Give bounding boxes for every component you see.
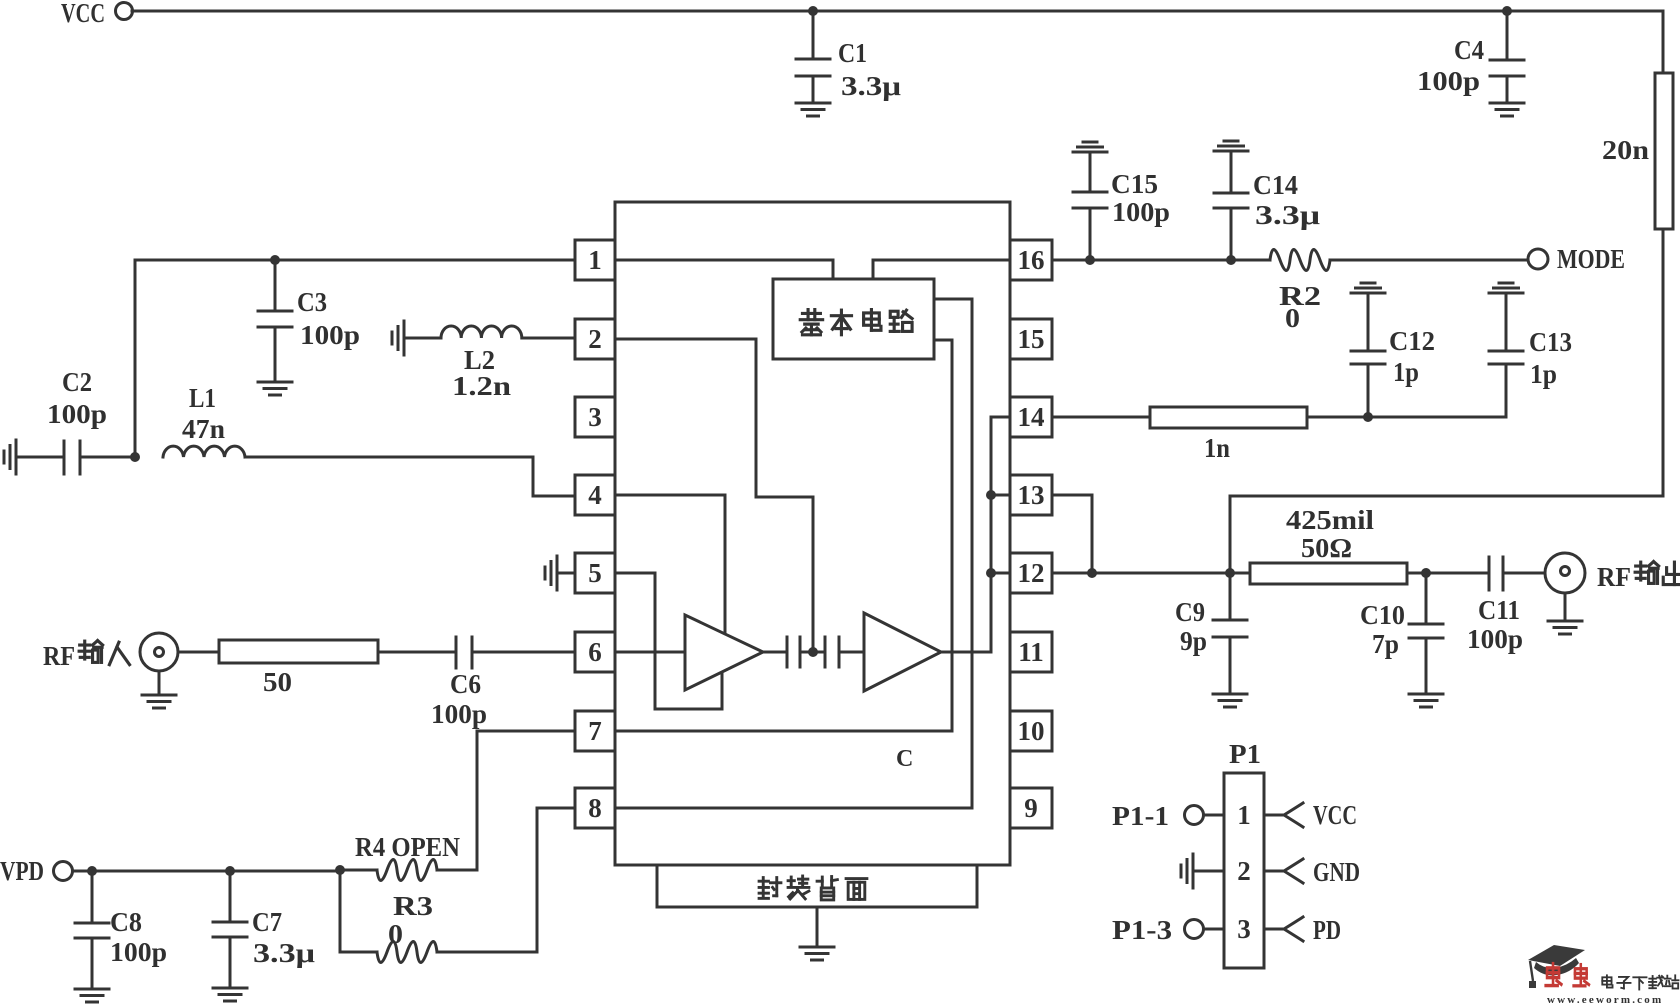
svg-text:www.eeworm.com: www.eeworm.com (1547, 994, 1663, 1005)
svg-text:R3: R3 (393, 891, 433, 921)
svg-text:C1: C1 (838, 38, 867, 68)
svg-text:3.3μ: 3.3μ (253, 938, 315, 968)
terminal MODE (1528, 244, 1625, 274)
svg-text:12: 12 (1018, 558, 1045, 588)
svg-text:4: 4 (588, 480, 602, 510)
capacitor C2 100p (16, 367, 135, 474)
wire pin7 to R4 (437, 731, 575, 870)
node pin12 link (986, 568, 996, 578)
wire A2 output riser (941, 417, 991, 652)
inner block package-back (657, 865, 977, 907)
svg-text:1n: 1n (1204, 433, 1230, 463)
svg-text:VCC: VCC (61, 0, 105, 28)
svg-text:100p: 100p (110, 937, 167, 967)
wire pin16 to MODE (1052, 259, 1270, 262)
node C14 junction (1226, 255, 1236, 265)
svg-text:3: 3 (588, 402, 602, 432)
pin 1 (575, 240, 615, 280)
node C12 junction (1363, 412, 1373, 422)
svg-text:GND: GND (1313, 857, 1360, 887)
terminal RF input (43, 633, 178, 671)
node C8 junction (87, 866, 97, 876)
pin 11 (1010, 632, 1052, 672)
capacitor interstage Ca (787, 637, 825, 667)
svg-text:C13: C13 (1529, 327, 1572, 357)
capacitor C3 100p (258, 260, 360, 382)
node pin13 link (986, 490, 996, 500)
wire VPD rail (73, 870, 340, 873)
capacitor C1 3.3u (796, 11, 901, 103)
pin 2 (575, 319, 615, 359)
pin 5 (575, 553, 615, 593)
svg-text:P1-3: P1-3 (1112, 915, 1172, 945)
svg-text:VPD: VPD (0, 856, 44, 886)
wire basic-circuit lead lower right (934, 340, 952, 731)
wire pin16 inner (873, 260, 1010, 280)
node R4-R3 junction (335, 865, 345, 875)
wire pin1 inner (615, 260, 833, 280)
transmission line 425mil 50ohm (1250, 505, 1407, 584)
svg-text:R4 OPEN: R4 OPEN (355, 832, 460, 862)
wire pin13 link (991, 494, 1010, 497)
capacitor C15 100p (1073, 142, 1170, 260)
svg-text:C14: C14 (1253, 170, 1298, 200)
pin 6 (575, 632, 615, 672)
node P1 PD arrow (1264, 915, 1341, 945)
capacitor C7 3.3u (213, 871, 315, 988)
wire pin5 ground (557, 572, 575, 575)
svg-text:C3: C3 (297, 287, 327, 317)
svg-text:2: 2 (588, 324, 602, 354)
capacitor C10 7p (1360, 573, 1443, 694)
capacitor C12 1p (1351, 283, 1435, 417)
svg-text:C8: C8 (110, 907, 142, 937)
node C3 junction (270, 255, 280, 265)
wire P1 pin2 ground (1193, 870, 1224, 873)
svg-text:PD: PD (1313, 915, 1341, 945)
wire basic-circuit lead upper right (934, 299, 972, 808)
svg-text:C2: C2 (62, 367, 92, 397)
svg-text:13: 13 (1018, 480, 1045, 510)
ground under RF output (1564, 593, 1567, 621)
ground at L2 (392, 321, 404, 355)
svg-text:10: 10 (1018, 716, 1045, 746)
svg-text:14: 14 (1018, 402, 1045, 432)
svg-text:C12: C12 (1389, 326, 1435, 356)
svg-text:2: 2 (1237, 856, 1251, 886)
node P1 GND arrow (1264, 857, 1360, 887)
wire pin12 outer (1052, 572, 1250, 575)
svg-text:1.2n: 1.2n (452, 371, 511, 401)
ground under RF input (158, 671, 161, 695)
wire R2 to MODE (1330, 259, 1527, 262)
node pin12-pin13 junction (1087, 568, 1097, 578)
resistor R3 0 (377, 891, 437, 963)
wire pin1 to left rail (135, 260, 575, 457)
svg-text:6: 6 (588, 637, 602, 667)
svg-text:15: 15 (1018, 324, 1045, 354)
svg-text:7p: 7p (1372, 629, 1399, 659)
capacitor C6 100p (431, 637, 575, 729)
wire 425mil to C11 (1407, 572, 1489, 575)
svg-text:MODE: MODE (1557, 244, 1625, 274)
inductor 20n (transmission line) (1602, 73, 1673, 229)
wire R4 to VPD node (340, 869, 377, 872)
node VCC-C1 junction (808, 6, 818, 16)
pin 16 (1010, 240, 1052, 280)
pin 12 (1010, 553, 1052, 593)
svg-text:C9: C9 (1175, 597, 1205, 627)
op-amp A1 (685, 615, 763, 690)
pin 4 (575, 475, 615, 515)
svg-text:425mil: 425mil (1286, 505, 1375, 535)
ground at P1 pin2 (1181, 854, 1193, 888)
wire pin4 inner (615, 495, 725, 632)
node C2-L1 junction (130, 452, 140, 462)
svg-text:RF: RF (43, 641, 75, 671)
svg-text:100p: 100p (1417, 66, 1480, 96)
node C15 junction (1085, 255, 1095, 265)
op-amp U1 IC outline (615, 202, 1010, 865)
svg-text:0: 0 (1285, 303, 1300, 333)
wire 50 line to C6 (378, 651, 456, 654)
wire pin5 inner loop (615, 573, 722, 709)
op-amp A2 (864, 613, 941, 691)
terminal VCC (61, 0, 133, 28)
wire pin8 to R3 (437, 808, 575, 952)
svg-text:C7: C7 (252, 907, 282, 937)
svg-text:P1: P1 (1229, 739, 1261, 769)
terminal P1-1 (1112, 801, 1224, 831)
pin 7 (575, 711, 615, 751)
inductor L1 47n (163, 383, 245, 457)
wire VCC rail (132, 11, 1663, 73)
node C10 junction (1421, 568, 1431, 578)
node C7 junction (225, 866, 235, 876)
ground at pin5 (545, 556, 557, 590)
svg-text:C15: C15 (1111, 169, 1158, 199)
svg-text:100p: 100p (431, 699, 487, 729)
wire package-back ground stem (816, 907, 819, 947)
ground under C8 (75, 989, 109, 1002)
svg-text:50: 50 (263, 667, 292, 697)
svg-text:100p: 100p (1112, 197, 1170, 227)
terminal RF output (1545, 553, 1680, 593)
svg-text:20n: 20n (1602, 135, 1649, 165)
svg-text:P1-1: P1-1 (1112, 801, 1169, 831)
svg-text:3.3μ: 3.3μ (841, 71, 901, 101)
capacitor C4 100p (1417, 11, 1524, 103)
ground under C9 (1213, 694, 1247, 707)
svg-text:16: 16 (1018, 245, 1045, 275)
ground under C10 (1409, 694, 1443, 707)
capacitor interstage Cb (825, 637, 864, 667)
svg-text:1: 1 (588, 245, 602, 275)
node VCC-C4 junction (1502, 6, 1512, 16)
watermark logo (1528, 945, 1679, 1005)
transmission line 50 (219, 640, 378, 697)
svg-text:L1: L1 (189, 383, 216, 413)
wire R3 to VPD node (340, 870, 377, 952)
capacitor C8 100p (75, 871, 167, 989)
svg-text:100p: 100p (1467, 624, 1523, 654)
node interstage junction (808, 647, 818, 657)
pin 3 (575, 397, 615, 437)
capacitor C14 3.3u (1214, 141, 1320, 260)
wire pin2 inner (615, 339, 813, 649)
svg-text:C11: C11 (1478, 595, 1520, 625)
resistor R4 OPEN (355, 832, 460, 881)
terminal P1-3 (1112, 915, 1224, 945)
svg-text:11: 11 (1018, 637, 1044, 667)
ground under C7 (213, 988, 247, 1001)
wire pin12 link (991, 572, 1010, 575)
wire pin7 inner (615, 730, 952, 733)
svg-text:9p: 9p (1180, 626, 1207, 656)
connector P1 (1224, 739, 1264, 968)
pin 10 (1010, 711, 1052, 751)
svg-text:1p: 1p (1530, 359, 1557, 389)
resistor R2 0 (1270, 250, 1330, 334)
svg-text:C: C (896, 746, 913, 772)
terminal VPD (0, 856, 73, 886)
pin 14 (1010, 397, 1052, 437)
pin 15 (1010, 319, 1052, 359)
svg-text:0: 0 (388, 919, 403, 949)
node C9 junction (1225, 568, 1235, 578)
svg-text:C4: C4 (1454, 35, 1484, 65)
node P1 VCC arrow (1264, 800, 1357, 830)
wire pin14 link (991, 416, 1010, 419)
ground under C4 (1490, 103, 1524, 116)
inductor L2 1.2n (404, 326, 575, 401)
wire pin8 inner (615, 807, 972, 810)
svg-text:47n: 47n (182, 414, 225, 444)
inner block basic-circuit box (773, 279, 934, 359)
wire pin14 to 1n (1052, 416, 1150, 419)
svg-text:5: 5 (588, 558, 602, 588)
wire pin6 inner (615, 651, 685, 654)
svg-text:VCC: VCC (1313, 800, 1357, 830)
svg-text:50Ω: 50Ω (1301, 533, 1352, 563)
ground under package-back (800, 947, 834, 960)
svg-text:3: 3 (1237, 914, 1251, 944)
ground under C3 (258, 382, 292, 395)
svg-text:1p: 1p (1393, 357, 1419, 387)
svg-text:RF: RF (1597, 562, 1631, 592)
pin 8 (575, 788, 615, 828)
svg-text:9: 9 (1024, 793, 1038, 823)
capacitor C9 9p (1175, 573, 1247, 694)
pin 9 (1010, 788, 1052, 828)
svg-text:C6: C6 (450, 669, 481, 699)
svg-text:100p: 100p (300, 320, 360, 350)
capacitor C13 1p (1489, 283, 1572, 417)
ground at C2 (4, 440, 16, 474)
transmission line 1n (1150, 407, 1307, 463)
svg-text:100p: 100p (47, 399, 107, 429)
wire pin13 outer (1052, 495, 1092, 573)
pin 13 (1010, 475, 1052, 515)
svg-text:7: 7 (588, 716, 602, 746)
svg-text:8: 8 (588, 793, 602, 823)
svg-text:C10: C10 (1360, 600, 1405, 630)
wire L1 to pin4 (245, 457, 575, 496)
wire 1n to C13 (1307, 416, 1506, 419)
wire RF input to 50 line (178, 651, 219, 654)
svg-text:1: 1 (1237, 800, 1251, 830)
wire A1 output (763, 651, 787, 654)
svg-text:3.3μ: 3.3μ (1255, 200, 1320, 230)
ground under C1 (796, 103, 830, 116)
wire 20n to output node (1230, 229, 1663, 573)
capacitor C11 100p (1467, 557, 1545, 654)
